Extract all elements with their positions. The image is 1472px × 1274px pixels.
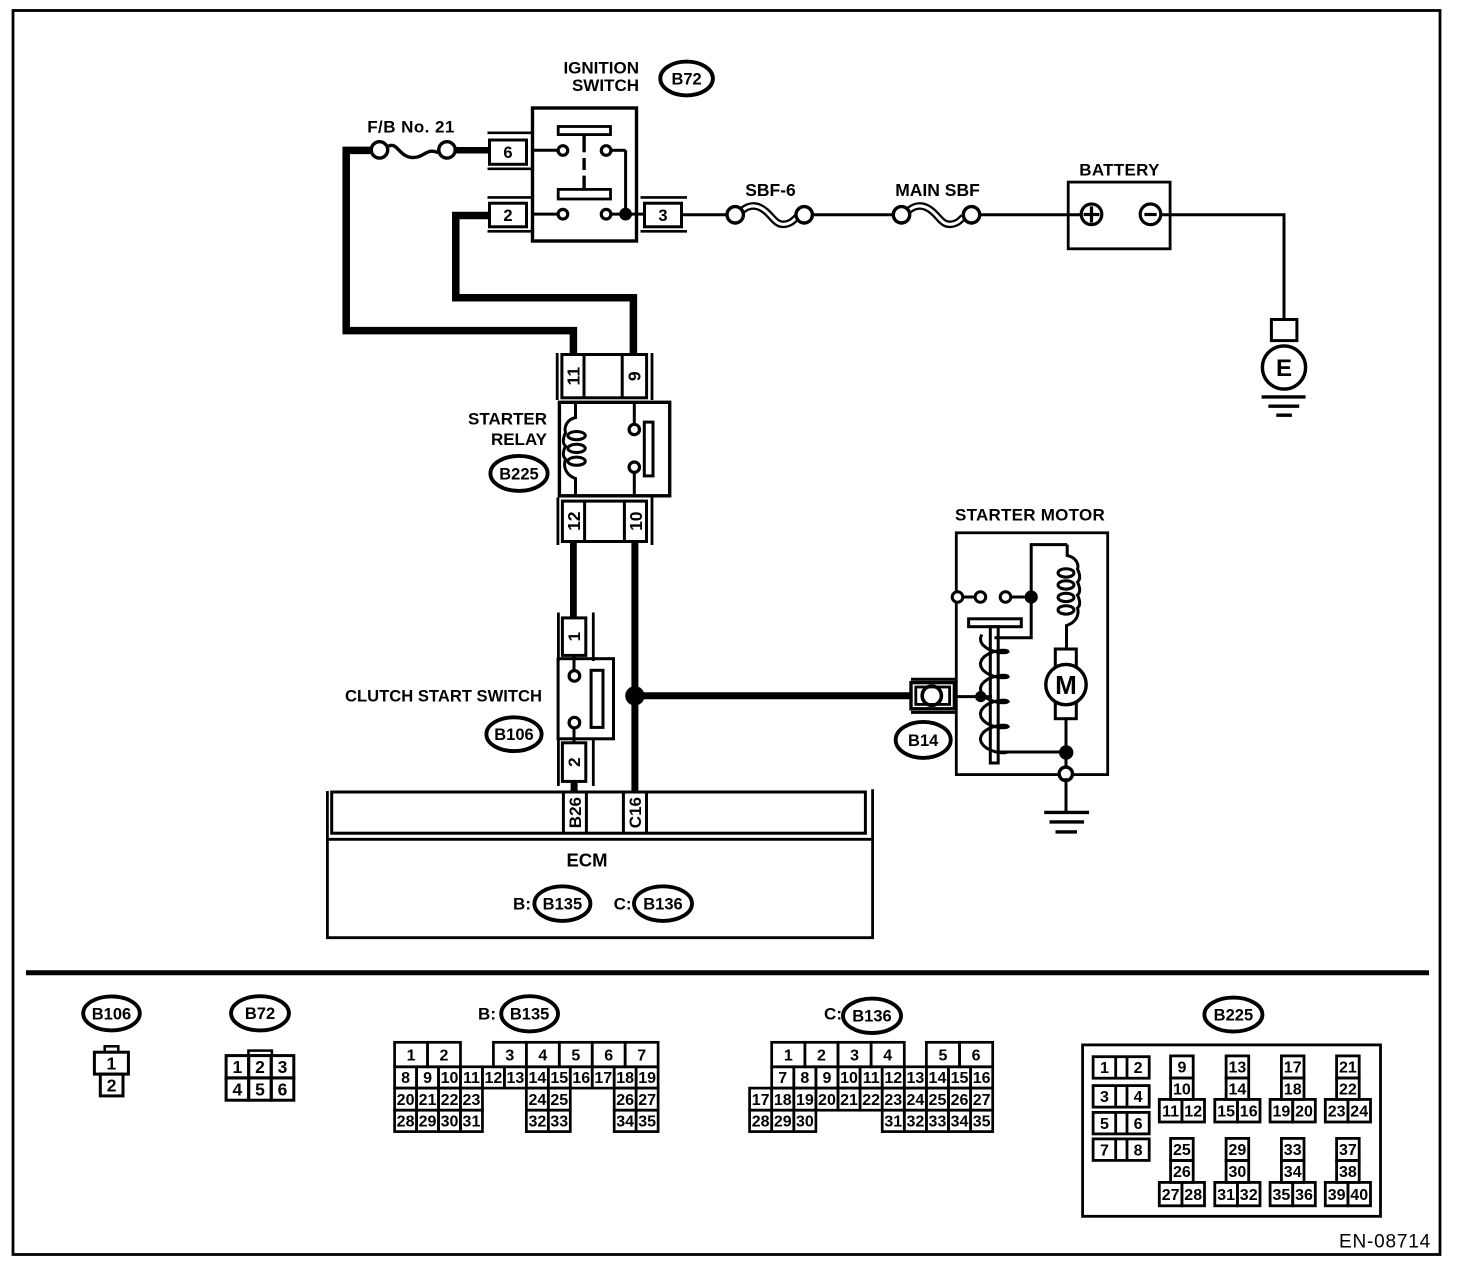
svg-text:14: 14 <box>929 1070 947 1087</box>
svg-text:27: 27 <box>638 1092 656 1109</box>
wire B14 to plunger <box>956 691 992 702</box>
svg-text:2: 2 <box>817 1047 826 1064</box>
svg-text:34: 34 <box>951 1114 969 1131</box>
svg-text:2: 2 <box>107 1075 117 1095</box>
svg-text:28: 28 <box>752 1114 770 1131</box>
connector B225 pinout <box>1083 1045 1381 1216</box>
svg-text:B72: B72 <box>671 70 701 88</box>
wire motor to ground <box>1059 719 1073 812</box>
svg-text:SBF-6: SBF-6 <box>745 180 796 200</box>
svg-text:19: 19 <box>1273 1103 1291 1120</box>
svg-text:19: 19 <box>796 1092 814 1109</box>
connector label B:B135 (pinout) <box>478 996 558 1031</box>
ECM connector label B:B135 <box>513 886 590 921</box>
fuse F/B No. 21 <box>367 118 455 159</box>
svg-text:30: 30 <box>1229 1164 1247 1181</box>
wire: ignition pin 3 to SBF-6 <box>682 213 727 216</box>
svg-text:1: 1 <box>565 632 584 641</box>
wire: relay pin 12 to clutch switch pin 1 <box>570 542 577 619</box>
svg-text:11: 11 <box>563 367 583 386</box>
svg-text:9: 9 <box>625 371 645 381</box>
svg-text:23: 23 <box>463 1092 481 1109</box>
connector label C:B136 (pinout) <box>824 999 901 1033</box>
solenoid contact row <box>952 590 1038 603</box>
connector label B225 (pinout) <box>1204 998 1262 1032</box>
clutch start switch S1 body <box>558 655 613 743</box>
svg-text:STARTER MOTOR: STARTER MOTOR <box>955 506 1105 525</box>
starter motor box <box>956 533 1107 775</box>
svg-text:28: 28 <box>1184 1187 1202 1204</box>
svg-text:5: 5 <box>571 1047 580 1064</box>
wire: junction to starter motor B14 <box>635 692 912 699</box>
svg-text:EN-08714: EN-08714 <box>1339 1232 1431 1253</box>
svg-text:25: 25 <box>929 1092 947 1109</box>
svg-text:B135: B135 <box>543 896 582 914</box>
svg-text:12: 12 <box>485 1070 503 1087</box>
svg-text:8: 8 <box>1134 1142 1143 1159</box>
battery <box>1068 161 1170 249</box>
svg-text:3: 3 <box>658 207 667 225</box>
svg-text:7: 7 <box>778 1070 787 1087</box>
svg-text:33: 33 <box>929 1114 947 1131</box>
connector label B72 (pinout) <box>231 996 289 1030</box>
svg-text:C:: C: <box>824 1005 842 1024</box>
field coil <box>1058 545 1080 649</box>
svg-text:B136: B136 <box>852 1008 891 1026</box>
svg-text:2: 2 <box>1134 1060 1143 1077</box>
svg-text:MAIN SBF: MAIN SBF <box>895 180 980 200</box>
svg-text:3: 3 <box>278 1057 288 1077</box>
svg-text:B225: B225 <box>499 465 538 483</box>
svg-text:2: 2 <box>440 1047 449 1064</box>
wire to field coil <box>1031 545 1067 592</box>
connector label B72 <box>660 62 713 96</box>
svg-text:12: 12 <box>564 511 584 531</box>
svg-text:15: 15 <box>951 1070 969 1087</box>
svg-text:4: 4 <box>233 1079 243 1099</box>
starter relay B225 body <box>559 402 669 496</box>
svg-text:39: 39 <box>1328 1187 1346 1204</box>
svg-text:10: 10 <box>840 1070 858 1087</box>
svg-text:26: 26 <box>1173 1164 1191 1181</box>
svg-text:24: 24 <box>1350 1103 1368 1120</box>
solenoid spring <box>980 635 1008 753</box>
svg-text:23: 23 <box>884 1092 902 1109</box>
svg-text:25: 25 <box>1173 1142 1191 1159</box>
starter relay label <box>468 410 548 450</box>
svg-text:5: 5 <box>255 1079 265 1099</box>
svg-text:1: 1 <box>784 1047 793 1064</box>
svg-text:B135: B135 <box>510 1006 549 1024</box>
svg-text:32: 32 <box>1240 1187 1258 1204</box>
pin 3 terminal <box>641 197 688 231</box>
svg-text:11: 11 <box>463 1070 480 1087</box>
svg-text:13: 13 <box>506 1070 524 1087</box>
motor M <box>1046 649 1086 719</box>
svg-text:7: 7 <box>637 1047 646 1064</box>
ground (starter motor) <box>1044 812 1089 832</box>
svg-text:8: 8 <box>800 1070 809 1087</box>
svg-text:19: 19 <box>638 1070 656 1087</box>
svg-text:M: M <box>1055 670 1077 700</box>
svg-text:16: 16 <box>973 1070 991 1087</box>
svg-text:4: 4 <box>883 1047 892 1064</box>
connector label B14 <box>896 722 951 758</box>
relay coil <box>563 404 585 495</box>
wire: relay pin 10 to ECM C16 <box>631 542 638 793</box>
svg-text:23: 23 <box>1328 1103 1346 1120</box>
svg-text:37: 37 <box>1339 1142 1357 1159</box>
svg-text:15: 15 <box>1217 1103 1235 1120</box>
svg-text:38: 38 <box>1339 1164 1357 1181</box>
svg-text:2: 2 <box>503 207 512 225</box>
svg-text:21: 21 <box>1339 1060 1357 1077</box>
svg-text:26: 26 <box>951 1092 969 1109</box>
svg-text:31: 31 <box>463 1114 481 1131</box>
svg-text:11: 11 <box>863 1070 880 1087</box>
svg-text:18: 18 <box>616 1070 634 1087</box>
svg-text:BATTERY: BATTERY <box>1079 161 1160 180</box>
svg-text:28: 28 <box>397 1114 415 1131</box>
svg-text:9: 9 <box>1177 1060 1186 1077</box>
svg-text:22: 22 <box>1339 1081 1357 1098</box>
wire: SBF-6 to MAIN SBF <box>814 213 893 216</box>
svg-text:30: 30 <box>796 1114 814 1131</box>
svg-text:7: 7 <box>1100 1142 1109 1159</box>
section divider <box>26 970 1429 975</box>
svg-text:20: 20 <box>1295 1103 1313 1120</box>
wire: battery - to ground E <box>1162 215 1284 320</box>
svg-text:33: 33 <box>1284 1142 1302 1159</box>
solenoid plunger <box>969 602 1032 763</box>
svg-text:18: 18 <box>774 1092 792 1109</box>
svg-text:29: 29 <box>774 1114 792 1131</box>
svg-text:3: 3 <box>850 1047 859 1064</box>
svg-text:31: 31 <box>1217 1187 1235 1204</box>
svg-text:20: 20 <box>397 1092 415 1109</box>
svg-text:14: 14 <box>1229 1081 1247 1098</box>
svg-text:9: 9 <box>822 1070 831 1087</box>
svg-text:SWITCH: SWITCH <box>572 76 639 95</box>
ignition switch label <box>563 59 639 96</box>
svg-text:4: 4 <box>1134 1089 1143 1106</box>
svg-text:30: 30 <box>441 1114 459 1131</box>
svg-text:3: 3 <box>1100 1089 1109 1106</box>
svg-text:B72: B72 <box>245 1005 275 1023</box>
fuse MAIN SBF <box>893 180 980 225</box>
svg-text:B26: B26 <box>566 797 585 828</box>
svg-text:B:: B: <box>513 895 531 914</box>
ECM box <box>327 789 872 937</box>
svg-text:13: 13 <box>1229 1060 1247 1077</box>
connector B136 pinout <box>750 1042 993 1131</box>
svg-text:11: 11 <box>1162 1103 1179 1120</box>
connector label B106 (pinout) <box>83 996 140 1030</box>
starter relay top connector pins 11 / 9 <box>557 353 652 400</box>
svg-text:B106: B106 <box>92 1005 131 1023</box>
pin 2 terminal <box>488 197 533 231</box>
svg-text:5: 5 <box>939 1047 948 1064</box>
svg-text:STARTER: STARTER <box>468 410 547 429</box>
wire plunger to motor junction <box>998 751 1066 754</box>
svg-text:17: 17 <box>1284 1060 1302 1077</box>
svg-text:ECM: ECM <box>566 850 607 871</box>
svg-text:12: 12 <box>1184 1103 1202 1120</box>
connector B14 <box>911 679 956 712</box>
svg-text:35: 35 <box>973 1114 991 1131</box>
svg-text:1: 1 <box>107 1053 117 1073</box>
svg-text:26: 26 <box>616 1092 634 1109</box>
svg-text:6: 6 <box>604 1047 613 1064</box>
svg-text:B106: B106 <box>494 726 533 744</box>
wire: fuse F/B No.21 to starter relay pin 11 <box>346 150 573 356</box>
svg-text:25: 25 <box>550 1092 568 1109</box>
ECM connector label C:B136 <box>614 886 692 921</box>
ECM pin C16 <box>623 792 646 833</box>
svg-text:17: 17 <box>752 1092 770 1109</box>
svg-text:10: 10 <box>626 511 646 531</box>
svg-text:6: 6 <box>503 144 512 162</box>
svg-text:1: 1 <box>233 1057 243 1077</box>
svg-text:4: 4 <box>538 1047 547 1064</box>
starter relay bottom connector pins 12 / 10 <box>558 498 652 546</box>
svg-text:24: 24 <box>528 1092 546 1109</box>
connector label B106 <box>486 717 541 751</box>
wire: fuse F/B No.21 to ignition pin 6 <box>455 147 491 154</box>
svg-text:35: 35 <box>638 1114 656 1131</box>
connector B106 pinout <box>94 1046 128 1096</box>
svg-text:F/B No. 21: F/B No. 21 <box>367 118 455 137</box>
fuse SBF-6 <box>727 180 812 225</box>
svg-text:34: 34 <box>1284 1164 1302 1181</box>
svg-text:E: E <box>1276 355 1292 382</box>
svg-text:3: 3 <box>505 1047 514 1064</box>
svg-text:31: 31 <box>884 1114 902 1131</box>
wire: clutch pin 2 to ECM B26 <box>571 781 578 792</box>
svg-text:B225: B225 <box>1214 1007 1253 1025</box>
svg-text:12: 12 <box>884 1070 902 1087</box>
svg-text:21: 21 <box>419 1092 437 1109</box>
svg-text:CLUTCH START SWITCH: CLUTCH START SWITCH <box>345 687 542 706</box>
svg-text:10: 10 <box>1173 1081 1191 1098</box>
svg-text:B14: B14 <box>908 732 939 750</box>
svg-text:16: 16 <box>572 1070 590 1087</box>
ignition switch contacts <box>533 146 645 221</box>
svg-text:IGNITION: IGNITION <box>563 59 639 78</box>
svg-text:15: 15 <box>550 1070 568 1087</box>
svg-text:1: 1 <box>1100 1060 1109 1077</box>
svg-text:32: 32 <box>906 1114 924 1131</box>
svg-text:35: 35 <box>1273 1187 1291 1204</box>
svg-text:33: 33 <box>550 1114 568 1131</box>
svg-text:1: 1 <box>407 1047 416 1064</box>
ground E <box>1262 320 1306 416</box>
connector label B225 <box>490 456 547 491</box>
svg-text:27: 27 <box>1162 1187 1180 1204</box>
svg-text:14: 14 <box>528 1070 546 1087</box>
svg-text:22: 22 <box>862 1092 880 1109</box>
svg-text:16: 16 <box>1240 1103 1258 1120</box>
svg-text:2: 2 <box>565 757 584 766</box>
svg-text:36: 36 <box>1295 1187 1313 1204</box>
ECM pin B26 <box>563 792 586 833</box>
svg-text:27: 27 <box>973 1092 991 1109</box>
svg-text:29: 29 <box>419 1114 437 1131</box>
svg-text:RELAY: RELAY <box>491 430 548 449</box>
wire: MAIN SBF to battery + <box>981 213 1080 216</box>
junction node <box>625 686 644 705</box>
svg-text:40: 40 <box>1350 1187 1368 1204</box>
svg-text:B:: B: <box>478 1005 496 1024</box>
svg-text:21: 21 <box>840 1092 858 1109</box>
wire: ignition pin 2 to starter relay pin 9 <box>456 216 634 357</box>
svg-text:6: 6 <box>1134 1116 1143 1133</box>
svg-text:2: 2 <box>255 1057 265 1077</box>
svg-text:22: 22 <box>441 1092 459 1109</box>
svg-text:10: 10 <box>441 1070 459 1087</box>
svg-text:32: 32 <box>528 1114 546 1131</box>
clutch start switch pin 1 terminal <box>558 613 593 662</box>
svg-text:17: 17 <box>594 1070 612 1087</box>
svg-text:20: 20 <box>818 1092 836 1109</box>
svg-text:9: 9 <box>423 1070 432 1087</box>
pin 6 terminal <box>488 133 533 169</box>
svg-text:B136: B136 <box>643 896 682 914</box>
svg-text:29: 29 <box>1229 1142 1247 1159</box>
svg-text:13: 13 <box>906 1070 924 1087</box>
clutch start switch pin 2 terminal <box>558 738 593 787</box>
connector B72 pinout <box>226 1051 294 1101</box>
svg-text:6: 6 <box>278 1079 288 1099</box>
svg-text:C16: C16 <box>626 797 645 828</box>
svg-text:8: 8 <box>401 1070 410 1087</box>
svg-text:6: 6 <box>972 1047 981 1064</box>
svg-text:C:: C: <box>614 895 632 914</box>
svg-text:5: 5 <box>1100 1116 1109 1133</box>
ignition switch U1 body <box>533 108 637 241</box>
connector B135 pinout <box>395 1042 659 1131</box>
relay contacts <box>629 402 653 496</box>
svg-text:24: 24 <box>906 1092 924 1109</box>
svg-text:34: 34 <box>616 1114 634 1131</box>
svg-text:18: 18 <box>1284 1081 1302 1098</box>
